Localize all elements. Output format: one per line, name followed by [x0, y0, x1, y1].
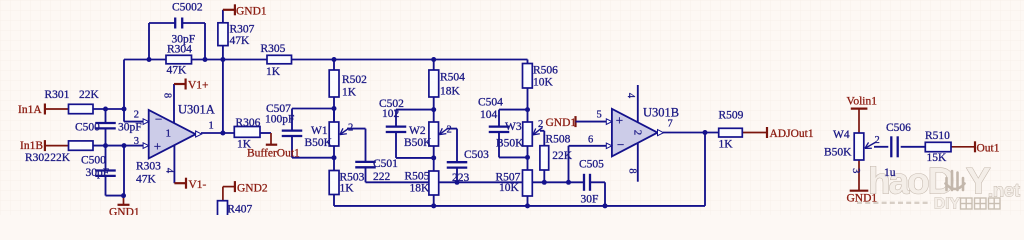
svg-text:18K: 18K: [440, 86, 461, 98]
svg-text:R407: R407: [227, 204, 252, 216]
svg-text:R307: R307: [230, 24, 255, 36]
svg-text:GND2: GND2: [237, 183, 268, 195]
svg-text:V1+: V1+: [188, 80, 209, 92]
svg-text:8: 8: [162, 93, 173, 98]
svg-text:22K: 22K: [552, 150, 573, 162]
svg-text:R509: R509: [719, 110, 744, 122]
svg-text:C503: C503: [464, 149, 489, 161]
svg-text:U301A: U301A: [178, 103, 215, 117]
svg-text:DIY: DIY: [934, 196, 961, 213]
svg-text:ADJOut1: ADJOut1: [770, 128, 814, 140]
svg-text:1: 1: [209, 121, 214, 132]
svg-text:B50K: B50K: [305, 137, 333, 149]
svg-text:R508: R508: [546, 134, 571, 146]
svg-text:C501: C501: [373, 158, 398, 170]
svg-text:2: 2: [538, 119, 543, 130]
svg-text:R506: R506: [533, 65, 558, 77]
svg-text:1K: 1K: [340, 183, 355, 195]
svg-text:−: −: [617, 137, 624, 152]
svg-text:22K: 22K: [79, 89, 100, 101]
svg-text:GND1: GND1: [236, 6, 267, 18]
svg-text:In1B: In1B: [20, 140, 43, 152]
svg-text:R504: R504: [440, 72, 465, 84]
svg-text:R304: R304: [167, 44, 192, 56]
svg-text:1K: 1K: [266, 66, 281, 78]
svg-text:2: 2: [134, 110, 139, 121]
svg-text:W4: W4: [833, 129, 850, 141]
svg-text:1u: 1u: [884, 167, 896, 179]
svg-text:30pF: 30pF: [118, 122, 142, 134]
svg-text:223: 223: [452, 172, 470, 184]
svg-text:C506: C506: [886, 122, 911, 134]
svg-text:1: 1: [166, 128, 172, 140]
svg-text:222: 222: [373, 171, 391, 183]
svg-text:C504: C504: [478, 97, 503, 109]
svg-text:47K: 47K: [230, 35, 251, 47]
svg-text:2: 2: [447, 125, 452, 136]
svg-text:22K: 22K: [50, 152, 71, 164]
svg-text:2: 2: [875, 135, 880, 146]
svg-text:C500: C500: [75, 122, 100, 134]
svg-text:47K: 47K: [167, 65, 188, 77]
svg-text:7: 7: [668, 119, 673, 130]
svg-text:In1A: In1A: [18, 104, 42, 116]
svg-text:10K: 10K: [499, 182, 520, 194]
svg-text:104: 104: [480, 109, 498, 121]
svg-text:W3: W3: [505, 121, 522, 133]
svg-text:GND1: GND1: [109, 207, 140, 216]
svg-text:1K: 1K: [342, 87, 357, 99]
svg-text:W1: W1: [311, 125, 328, 137]
svg-text:4: 4: [625, 93, 636, 99]
svg-text:Out1: Out1: [977, 143, 1000, 155]
svg-text:+: +: [616, 113, 623, 128]
svg-text:102: 102: [382, 108, 400, 120]
svg-text:R502: R502: [342, 74, 367, 86]
svg-text:1K: 1K: [719, 139, 734, 151]
svg-text:V1-: V1-: [189, 179, 207, 191]
svg-text:8: 8: [627, 168, 638, 173]
svg-text:B50K: B50K: [824, 147, 852, 159]
svg-text:100pF: 100pF: [265, 114, 294, 126]
svg-text:C505: C505: [579, 159, 604, 171]
svg-text:C5002: C5002: [172, 2, 203, 14]
svg-text:BufferOut1: BufferOut1: [247, 148, 300, 160]
svg-text:R505: R505: [405, 171, 430, 183]
svg-text:30F: 30F: [581, 194, 599, 206]
svg-text:3: 3: [134, 136, 139, 147]
svg-text:R305: R305: [261, 43, 286, 55]
svg-text:+: +: [154, 139, 161, 154]
svg-text:R303: R303: [136, 161, 161, 173]
svg-text:15K: 15K: [927, 152, 948, 164]
svg-text:47K: 47K: [136, 174, 157, 186]
svg-text:W2: W2: [409, 125, 426, 137]
svg-text:B50K: B50K: [496, 138, 524, 150]
svg-text:18K: 18K: [410, 183, 431, 195]
svg-text:2: 2: [632, 130, 644, 136]
svg-text:R302: R302: [25, 152, 50, 164]
svg-text:C500: C500: [81, 155, 106, 167]
svg-text:R510: R510: [925, 130, 950, 142]
svg-text:U301B: U301B: [643, 106, 679, 120]
svg-text:2: 2: [348, 122, 353, 133]
svg-text:Volin1: Volin1: [847, 96, 878, 108]
svg-text:R301: R301: [45, 89, 70, 101]
svg-text:R306: R306: [236, 117, 261, 129]
svg-text:4: 4: [164, 168, 175, 174]
svg-text:30pF: 30pF: [86, 167, 110, 179]
svg-text:3: 3: [850, 168, 861, 173]
svg-text:−: −: [155, 112, 162, 127]
svg-text:10K: 10K: [533, 77, 554, 89]
svg-text:5: 5: [597, 110, 602, 121]
svg-text:B50K: B50K: [404, 137, 432, 149]
svg-text:GND1: GND1: [546, 117, 577, 129]
svg-text:GND1: GND1: [847, 193, 878, 205]
svg-text:6: 6: [588, 135, 593, 146]
